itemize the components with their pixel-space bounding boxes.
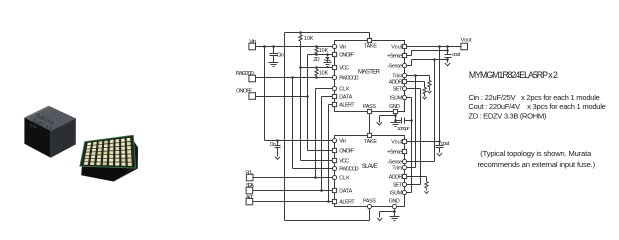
wire -Sense bus down to slave <box>434 60 436 162</box>
U2 pin GND <box>392 204 396 208</box>
wire ring left vertical <box>284 33 286 221</box>
wire ISUM row / bus to slave <box>405 97 412 99</box>
node GND junction a <box>394 114 397 117</box>
svg-text:MYMGM1R824ELA5RP x 2: MYMGM1R824ELA5RP x 2 <box>469 70 558 80</box>
solder pads 7x7 <box>87 142 91 145</box>
node Vin-drop junction <box>263 45 266 48</box>
U2 pin SET <box>402 182 406 186</box>
svg-text:VCC: VCC <box>339 159 349 165</box>
U2 pin PASS <box>367 204 371 208</box>
wire VCC row to U1 VCC pin <box>301 67 335 69</box>
node CLK branch junction <box>314 176 317 179</box>
wire slave ISUM row <box>405 192 412 194</box>
zener diode ZD <box>327 55 329 57</box>
wire slave SET row <box>405 184 421 186</box>
U1 pin GND <box>393 109 397 113</box>
wire GND to left arrow <box>380 115 396 117</box>
package left face <box>24 118 50 158</box>
U1 pin CLK <box>332 86 336 90</box>
resistor R3 10K PWGOOD pull-up to VCC <box>316 68 318 70</box>
converter module U2 SLAVE (block outline) <box>335 136 405 207</box>
svg-text:DATA: DATA <box>339 95 352 101</box>
svg-text:CLK: CLK <box>339 87 350 93</box>
U2 pin PWGOOD <box>332 166 336 170</box>
ground arrow under Cout2 <box>439 152 441 153</box>
wire DATA up to U1 DATA pin <box>321 97 323 191</box>
svg-text:+Sense: +Sense <box>387 150 402 156</box>
svg-text:PWGOOD: PWGOOD <box>236 71 254 77</box>
svg-text:ZD : EDZV 3.3B (ROHM): ZD : EDZV 3.3B (ROHM) <box>468 111 546 120</box>
terminal SDA <box>246 187 253 194</box>
wire SDA row to slave DATA <box>253 190 335 192</box>
U2 pin +Sense <box>402 149 406 153</box>
U1 pin ALERT <box>332 102 336 106</box>
resistor R4 trim network <box>429 76 431 81</box>
node DATA branch junction <box>320 189 323 192</box>
wire slave Vout row <box>405 141 440 143</box>
wire ring up to U2 PASS pin <box>369 207 371 221</box>
svg-text:Vin: Vin <box>339 45 346 51</box>
U2 pin DATA <box>332 188 336 192</box>
wire slave Vin row <box>265 140 335 142</box>
U1 pin Vin <box>332 44 336 48</box>
svg-text:Cin : 22uF/25V x 2pcs for ea: Cin : 22uF/25V x 2pcs for each 1 module <box>468 93 600 102</box>
svg-text:ON/OFF: ON/OFF <box>339 53 355 59</box>
svg-text:1000pF: 1000pF <box>397 126 410 132</box>
terminal ON/OFF <box>249 93 256 100</box>
svg-text:ADDR: ADDR <box>389 175 403 181</box>
U2 pin Vout <box>402 139 406 143</box>
U2 pin ISUM <box>402 190 406 194</box>
terminal Vin <box>249 43 256 50</box>
svg-text:ALT: ALT <box>246 195 254 201</box>
node R2 top junction <box>315 45 318 48</box>
capacitor Cin2 with ground arrow <box>277 141 279 146</box>
U1 pin VCC <box>332 65 336 69</box>
module photo: top view (black package) <box>24 106 75 158</box>
ground under U2 GND <box>390 216 400 218</box>
U2 pin ADDR <box>402 174 406 178</box>
svg-text:Vin: Vin <box>339 139 346 145</box>
wire Trim bus down to slave <box>415 76 417 168</box>
node PWGOOD drop junction <box>291 76 294 79</box>
svg-text:ALERT: ALERT <box>339 200 355 206</box>
node Cin1 junction <box>272 45 275 48</box>
terminal SCL <box>246 174 253 181</box>
node R3 bottom junction <box>315 76 318 79</box>
wire U1 GND stem <box>395 112 397 123</box>
wire +Sense to output cap <box>405 55 412 57</box>
ground under zener <box>324 62 332 64</box>
wire -Sense row <box>405 65 412 67</box>
svg-text:SCL: SCL <box>245 170 253 176</box>
package marking text <box>28 112 55 137</box>
svg-text:VCC: VCC <box>339 66 349 72</box>
node R2 bottom junction <box>315 53 318 56</box>
wire PWGOOD down to slave <box>292 78 294 169</box>
U1 pin ON/OFF <box>332 52 336 56</box>
wire ring bottom <box>285 220 370 222</box>
U2 pin -Sense <box>402 159 406 163</box>
node zener junction on ON/OFF <box>326 53 329 56</box>
arrow to trim net <box>428 91 432 93</box>
U1 pin TAKE <box>367 38 371 42</box>
node GND junction b (1000pF) <box>394 119 397 122</box>
U2 pin Vin <box>332 138 336 142</box>
wire ALERT up to U1 ALERT pin <box>328 105 330 202</box>
svg-text:Vout: Vout <box>391 140 403 146</box>
U1 pin PWGOOD <box>332 75 336 79</box>
svg-text:Cin: Cin <box>270 142 276 148</box>
svg-text:10K: 10K <box>319 48 329 54</box>
resistor R5 address set <box>424 82 426 88</box>
wire ON/OFF up to U1 pin <box>307 55 309 97</box>
svg-text:ISUM: ISUM <box>390 191 403 197</box>
svg-text:DATA: DATA <box>339 189 352 195</box>
arrow to slave ADDR net <box>425 191 429 193</box>
node slave Vout/Cout2 junction <box>438 140 441 143</box>
wire slave -Sense row <box>405 161 435 163</box>
wire Vin feed down to slave <box>264 47 266 141</box>
U2 pin VCC <box>332 158 336 162</box>
node ON/OFF junction <box>306 95 309 98</box>
svg-text:Vin: Vin <box>249 39 256 45</box>
wire ON/OFF down to slave pin <box>307 97 309 151</box>
svg-text:GND: GND <box>389 199 400 205</box>
capacitor C5 1000pF (GND to ISUM) <box>396 120 402 122</box>
U1 pin -Sense <box>402 63 406 67</box>
ground arrow under Cout1 <box>445 63 450 66</box>
node VCC row junction <box>299 66 302 69</box>
U1 pin ADDR <box>402 79 406 83</box>
node -Sense bus junction <box>433 58 436 61</box>
node Cin2 junction <box>276 139 279 142</box>
svg-text:Vout: Vout <box>391 45 403 51</box>
body below pad face <box>81 137 138 181</box>
svg-text:10K: 10K <box>304 36 314 42</box>
svg-text:PWGOOD: PWGOOD <box>339 167 359 173</box>
wire U2 GND stem <box>394 207 396 217</box>
U2 pin Trim <box>402 165 406 169</box>
U1 pin Trim <box>402 73 406 77</box>
svg-text:ON/OFF: ON/OFF <box>339 149 355 155</box>
U1 pin ISUM <box>402 95 406 99</box>
substrate face <box>80 135 136 168</box>
svg-text:SDA: SDA <box>246 183 254 189</box>
svg-text:GND: GND <box>389 104 400 110</box>
wire slave GND to left arrow <box>380 211 395 213</box>
svg-text:cout: cout <box>452 52 461 58</box>
module photo: bottom view (LGA pad grid) <box>80 135 138 181</box>
node -Sense/Cout1 bottom junction <box>446 58 449 61</box>
wire slave PWGOOD row <box>293 168 335 170</box>
svg-text:Trim: Trim <box>392 166 403 172</box>
capacitor Cout2 <box>439 142 441 146</box>
svg-text:ALERT: ALERT <box>339 103 355 109</box>
svg-text:MASTER: MASTER <box>358 70 381 76</box>
capacitor Cout1 <box>447 51 449 55</box>
svg-text:ON/OFF: ON/OFF <box>236 89 253 95</box>
svg-text:TAKE: TAKE <box>364 44 377 50</box>
U1 pin DATA <box>332 94 336 98</box>
wire PWGOOD row to U1 PWGOOD pin <box>256 77 335 79</box>
node Vout/Cout junction <box>446 45 449 48</box>
wire ring top rail <box>285 32 370 34</box>
resistor R2 10K ON/OFF pull-up to Vin <box>316 47 318 48</box>
svg-text:Cout : 220uF/4V x 3pcs for: Cout : 220uF/4V x 3pcs for each 1 module <box>468 102 606 111</box>
svg-text:PASS: PASS <box>363 199 376 205</box>
U2 pin CLK <box>332 175 336 179</box>
arrow system ground (master) <box>377 122 382 125</box>
node 1000pF/ISUM junction <box>410 119 413 122</box>
resistor R6 slave address set <box>405 176 427 178</box>
wire slave VCC row <box>301 160 335 162</box>
svg-text:ADDR: ADDR <box>389 80 403 86</box>
ground under U1 GND <box>391 122 401 124</box>
U2 pin TAKE <box>367 133 371 137</box>
wire slave Trim row <box>405 167 416 169</box>
svg-text:SLAVE: SLAVE <box>362 164 378 170</box>
package right face <box>51 118 76 157</box>
U1 pin +Sense <box>402 53 406 57</box>
wire SCL row to slave CLK <box>254 177 335 179</box>
svg-text:TAKE: TAKE <box>364 139 377 145</box>
wire SET row / bus to slave <box>405 88 421 90</box>
svg-text:CLK: CLK <box>339 176 350 182</box>
wire U1 PASS to U2 TAKE <box>369 112 371 136</box>
body right face (lighter) <box>114 137 139 181</box>
node ring / R1 junction <box>299 31 302 34</box>
wire Vin row to U1 Vin pin <box>256 46 335 48</box>
node ALERT branch junction <box>327 200 330 203</box>
svg-text:(Typical topology is shown. Mu: (Typical topology is shown. Murata <box>480 149 592 158</box>
wire ALT row to slave ALERT <box>253 201 335 203</box>
wire U1 TAKE stem to ring rail <box>369 33 371 41</box>
U1 pin SET <box>402 86 406 90</box>
svg-text:Vout: Vout <box>461 37 472 43</box>
svg-text:-Sense: -Sense <box>387 64 402 70</box>
svg-text:SET: SET <box>393 87 403 93</box>
terminal Vout <box>461 43 468 50</box>
package top face <box>24 106 75 131</box>
node Trim bus junction <box>414 74 417 77</box>
wire Vout to +Sense tie at Cout1 <box>447 47 449 51</box>
converter module U1 MASTER (block outline) <box>335 41 405 112</box>
capacitor Cin1 <box>273 47 275 54</box>
wire Vout row from U1 Vout pin to Vout terminal <box>405 46 461 48</box>
U2 pin ALERT <box>332 199 336 203</box>
node R3 top junction <box>315 66 318 69</box>
U1 pin PASS <box>367 109 371 113</box>
svg-text:Cin: Cin <box>277 53 284 59</box>
svg-text:PWGOOD: PWGOOD <box>339 76 359 82</box>
terminal PWGOOD <box>249 75 256 82</box>
wire CLK up to U1 CLK pin <box>315 89 317 178</box>
svg-text:+Sense: +Sense <box>387 54 402 60</box>
svg-text:SET: SET <box>393 183 403 189</box>
svg-text:PASS: PASS <box>363 104 376 110</box>
terminal ALT <box>246 198 253 205</box>
wire VCC net vertical down to slave VCC <box>300 44 302 161</box>
svg-text:ISUM: ISUM <box>390 96 403 102</box>
svg-text:cout: cout <box>441 141 450 147</box>
node slave GND junction <box>393 210 396 213</box>
resistor R1 10K ring pull-up to VCC <box>300 33 302 35</box>
svg-text:ZD: ZD <box>313 57 320 63</box>
wire Vout bus down to slave <box>439 47 441 142</box>
node Vout bus junction <box>438 45 441 48</box>
node +Sense/Cout junction <box>446 49 449 52</box>
arrow system ground (slave) <box>377 218 382 221</box>
wire ADDR row <box>405 81 425 83</box>
U2 pin ON/OFF <box>332 148 336 152</box>
svg-text:10K: 10K <box>319 70 329 76</box>
wire Trim row <box>405 75 430 77</box>
wire ON/OFF row <box>256 96 308 98</box>
svg-text:recommends an external input f: recommends an external input fuse.) <box>477 160 595 169</box>
arrow to ADDR net <box>423 97 427 99</box>
U1 pin Vout <box>402 44 406 48</box>
